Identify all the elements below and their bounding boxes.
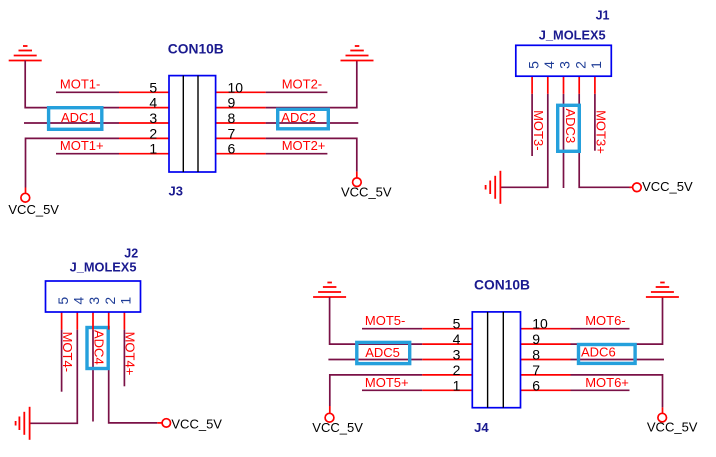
pin 5 of J4 — [422, 316, 472, 332]
ground GND q4-right — [646, 283, 679, 298]
power pin red stub right — [356, 172, 358, 178]
wire pin3 stub (ADC4) — [92, 330, 94, 422]
svg-text:MOT4-: MOT4- — [60, 332, 75, 372]
connector J4 body — [472, 312, 520, 408]
svg-text:6: 6 — [228, 141, 236, 157]
QUADRANT 1 : J3 CON10B — [8, 42, 392, 217]
svg-text:9: 9 — [228, 95, 236, 111]
svg-text:CON10B: CON10B — [168, 42, 224, 57]
svg-text:3: 3 — [453, 347, 461, 363]
wire pin5 stub (MOT4-) — [61, 330, 63, 392]
pin 3 of J2 — [86, 297, 102, 330]
power pin red stub — [630, 186, 633, 188]
wire pin1 stub (MOT4+) — [123, 330, 125, 387]
label box ADC2 — [278, 109, 329, 129]
power port VCC_5V q4 bottom-right — [658, 413, 667, 422]
wire pin7 of J4 to VCC — [571, 375, 663, 408]
svg-text:4: 4 — [149, 95, 157, 111]
power port VCC_5V — [162, 419, 170, 427]
wire pin4 to ground — [500, 94, 547, 188]
svg-text:VCC_5V: VCC_5V — [312, 420, 363, 435]
pin 8 of J4 — [521, 347, 571, 363]
svg-text:MOT6+: MOT6+ — [585, 375, 629, 390]
pin 3 of J4 — [422, 347, 472, 363]
svg-text:ADC6: ADC6 — [581, 345, 616, 360]
pin 10 of J4 — [521, 316, 571, 332]
svg-text:2: 2 — [149, 125, 157, 141]
pin 9 — [216, 95, 266, 111]
svg-text:5: 5 — [55, 297, 71, 305]
svg-text:1: 1 — [453, 377, 461, 393]
power port VCC_5V — [633, 183, 642, 192]
wire pin9 to ground — [266, 61, 357, 108]
pin 4 — [119, 95, 169, 111]
pin 2 — [119, 125, 169, 141]
svg-text:VCC_5V: VCC_5V — [171, 417, 222, 432]
wire MOT1- net — [56, 91, 119, 93]
svg-text:ADC1: ADC1 — [61, 110, 96, 125]
power pin red stub — [157, 422, 162, 424]
svg-text:3: 3 — [557, 61, 573, 69]
svg-text:MOT5-: MOT5- — [365, 313, 405, 328]
pin 6 — [216, 141, 266, 157]
connector J2 body — [46, 281, 141, 312]
wire MOT6- net — [571, 328, 630, 330]
wire pin3 stub (ADC3) — [563, 94, 565, 188]
pin 5 of J1 — [525, 61, 541, 94]
svg-text:VCC_5V: VCC_5V — [341, 184, 392, 199]
svg-text:MOT2-: MOT2- — [282, 77, 322, 92]
wire MOT2+ net — [266, 153, 328, 155]
svg-text:MOT6-: MOT6- — [585, 313, 625, 328]
pin 9 of J4 — [521, 331, 571, 347]
svg-text:4: 4 — [541, 61, 557, 69]
ground GND (rotated) — [16, 407, 30, 440]
power port VCC_5V right — [353, 178, 362, 187]
svg-text:7: 7 — [228, 125, 236, 141]
svg-text:8: 8 — [228, 110, 236, 126]
svg-text:VCC_5V: VCC_5V — [8, 202, 59, 217]
pin 1 — [119, 141, 169, 157]
label box ADC5 — [357, 342, 410, 363]
pin 4 of J4 — [422, 331, 472, 347]
wire ADC1 stub — [24, 122, 119, 124]
svg-text:3: 3 — [149, 110, 157, 126]
wire MOT1+ net — [56, 153, 119, 155]
ground GND (rotated) — [486, 171, 501, 204]
ground GND q4-left — [313, 283, 346, 298]
svg-text:6: 6 — [532, 377, 540, 393]
QUADRANT 4 : J4 CON10B — [312, 278, 698, 435]
svg-text:CON10B: CON10B — [474, 278, 530, 293]
label box ADC4 — [87, 328, 108, 369]
svg-text:MOT3-: MOT3- — [531, 110, 546, 150]
svg-text:ADC5: ADC5 — [365, 345, 400, 360]
connector J3 body — [169, 76, 216, 172]
wire pin2 of J4 to VCC — [330, 375, 423, 406]
power pin red stub q4-left — [329, 406, 331, 413]
wire ADC6 stub — [571, 359, 665, 361]
pin 5 of J2 — [55, 297, 71, 330]
power port VCC_5V q4 bottom-left — [325, 413, 334, 422]
wire MOT5+ net — [362, 389, 422, 391]
svg-text:J2: J2 — [124, 247, 138, 261]
svg-text:VCC_5V: VCC_5V — [647, 420, 698, 435]
svg-text:8: 8 — [532, 347, 540, 363]
wire ground to pin4 — [25, 61, 119, 108]
svg-text:MOT1+: MOT1+ — [60, 138, 104, 153]
ground GND top-right — [341, 46, 374, 61]
label box ADC1 — [49, 108, 102, 130]
wire pin9 of J4 to ground — [571, 297, 663, 344]
pin 4 of J2 — [71, 297, 87, 330]
svg-text:5: 5 — [525, 61, 541, 69]
connector J1 body — [516, 45, 612, 76]
svg-text:4: 4 — [453, 331, 461, 347]
label box ADC3 — [558, 105, 580, 151]
wire ground to pin4 of J4 — [330, 297, 423, 344]
svg-text:1: 1 — [149, 141, 157, 157]
svg-text:MOT4+: MOT4+ — [123, 332, 138, 376]
wire MOT2- net — [266, 91, 328, 93]
pin 6 of J4 — [521, 377, 571, 393]
svg-text:ADC4: ADC4 — [92, 330, 107, 365]
svg-text:VCC_5V: VCC_5V — [642, 179, 693, 194]
wire pin5 stub (MOT3-) — [531, 94, 533, 156]
pin 3 of J1 — [557, 61, 573, 94]
wire ADC5 stub — [328, 359, 422, 361]
wire pin2 to VCC — [109, 330, 158, 423]
svg-text:MOT3+: MOT3+ — [594, 110, 609, 154]
svg-text:9: 9 — [532, 331, 540, 347]
QUADRANT 3 : J2 J_MOLEX5 — [16, 247, 223, 440]
pin 2 of J1 — [572, 61, 588, 94]
svg-text:10: 10 — [228, 79, 244, 95]
svg-text:MOT2+: MOT2+ — [282, 138, 326, 153]
wire pin4 to ground — [30, 330, 78, 424]
svg-text:3: 3 — [86, 297, 102, 305]
svg-text:10: 10 — [532, 316, 548, 332]
wire ADC2 stub — [266, 122, 359, 124]
svg-text:ADC2: ADC2 — [281, 110, 316, 125]
svg-text:2: 2 — [572, 61, 588, 69]
pin 2 of J2 — [102, 297, 118, 330]
svg-text:MOT5+: MOT5+ — [365, 375, 409, 390]
svg-text:2: 2 — [102, 297, 118, 305]
svg-text:J3: J3 — [169, 183, 183, 198]
pin 7 of J4 — [521, 362, 571, 378]
svg-text:2: 2 — [453, 362, 461, 378]
wire pin2 to VCC — [579, 94, 630, 188]
svg-text:7: 7 — [532, 362, 540, 378]
svg-text:4: 4 — [71, 297, 87, 305]
svg-text:J_MOLEX5: J_MOLEX5 — [539, 27, 606, 42]
wire pin2 to VCC — [26, 138, 120, 187]
power pin red stub left — [25, 188, 27, 194]
svg-text:1: 1 — [588, 61, 604, 69]
QUADRANT 2 : J1 J_MOLEX5 — [486, 9, 693, 204]
label box ADC6 — [579, 345, 636, 364]
wire MOT5- net — [362, 328, 422, 330]
svg-text:5: 5 — [149, 79, 157, 95]
ground GND top-left — [9, 46, 42, 61]
svg-text:1: 1 — [118, 297, 134, 305]
svg-text:J4: J4 — [474, 420, 489, 435]
pin 1 of J2 — [118, 297, 134, 330]
wire pin7 to VCC — [266, 138, 357, 171]
pin 8 — [216, 110, 266, 126]
pin 10 — [216, 79, 266, 95]
pin 4 of J1 — [541, 61, 557, 94]
svg-text:J_MOLEX5: J_MOLEX5 — [70, 260, 137, 275]
svg-text:J1: J1 — [596, 9, 610, 23]
pin 1 of J1 — [588, 61, 604, 94]
wire pin1 stub (MOT3+) — [594, 94, 596, 151]
pin 7 — [216, 125, 266, 141]
svg-text:MOT1-: MOT1- — [60, 77, 100, 92]
power pin red stub q4-right — [662, 407, 664, 413]
power port VCC_5V bottom-left — [21, 193, 30, 202]
wire MOT6+ net — [571, 389, 630, 391]
pin 5 — [119, 79, 169, 95]
svg-text:ADC3: ADC3 — [563, 109, 578, 144]
pin 1 of J4 — [422, 377, 472, 393]
pin 3 — [119, 110, 169, 126]
pin 2 of J4 — [422, 362, 472, 378]
svg-text:5: 5 — [453, 316, 461, 332]
